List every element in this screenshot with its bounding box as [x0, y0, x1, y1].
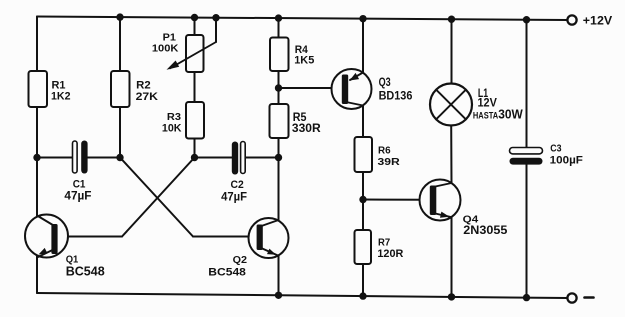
svg-text:47µF: 47µF	[221, 192, 247, 204]
svg-text:R2: R2	[136, 80, 151, 92]
svg-text:2N3055: 2N3055	[463, 223, 507, 237]
svg-text:30W: 30W	[498, 107, 523, 122]
svg-text:10K: 10K	[162, 123, 182, 135]
svg-text:C2: C2	[231, 179, 244, 191]
svg-text:47µF: 47µF	[64, 191, 91, 203]
svg-text:+12V: +12V	[583, 16, 613, 28]
svg-text:12V: 12V	[478, 97, 498, 109]
svg-text:BC548: BC548	[66, 264, 105, 279]
svg-text:100µF: 100µF	[550, 155, 583, 167]
svg-text:1K5: 1K5	[294, 55, 314, 67]
svg-text:Q3: Q3	[379, 75, 391, 89]
svg-text:Q2: Q2	[233, 254, 248, 266]
svg-text:R3: R3	[167, 111, 181, 123]
svg-text:C3: C3	[550, 143, 561, 155]
svg-text:HASTA: HASTA	[473, 110, 499, 120]
svg-text:27K: 27K	[136, 91, 158, 103]
svg-text:100K: 100K	[152, 43, 179, 55]
svg-text:39R: 39R	[378, 156, 401, 168]
svg-text:R6: R6	[378, 145, 391, 157]
svg-text:120R: 120R	[377, 248, 403, 260]
svg-text:R7: R7	[378, 237, 390, 249]
svg-text:C1: C1	[73, 179, 86, 191]
svg-text:1K2: 1K2	[51, 91, 71, 103]
svg-text:330R: 330R	[292, 123, 322, 135]
svg-text:BC548: BC548	[208, 266, 246, 278]
svg-text:BD136: BD136	[379, 91, 413, 103]
